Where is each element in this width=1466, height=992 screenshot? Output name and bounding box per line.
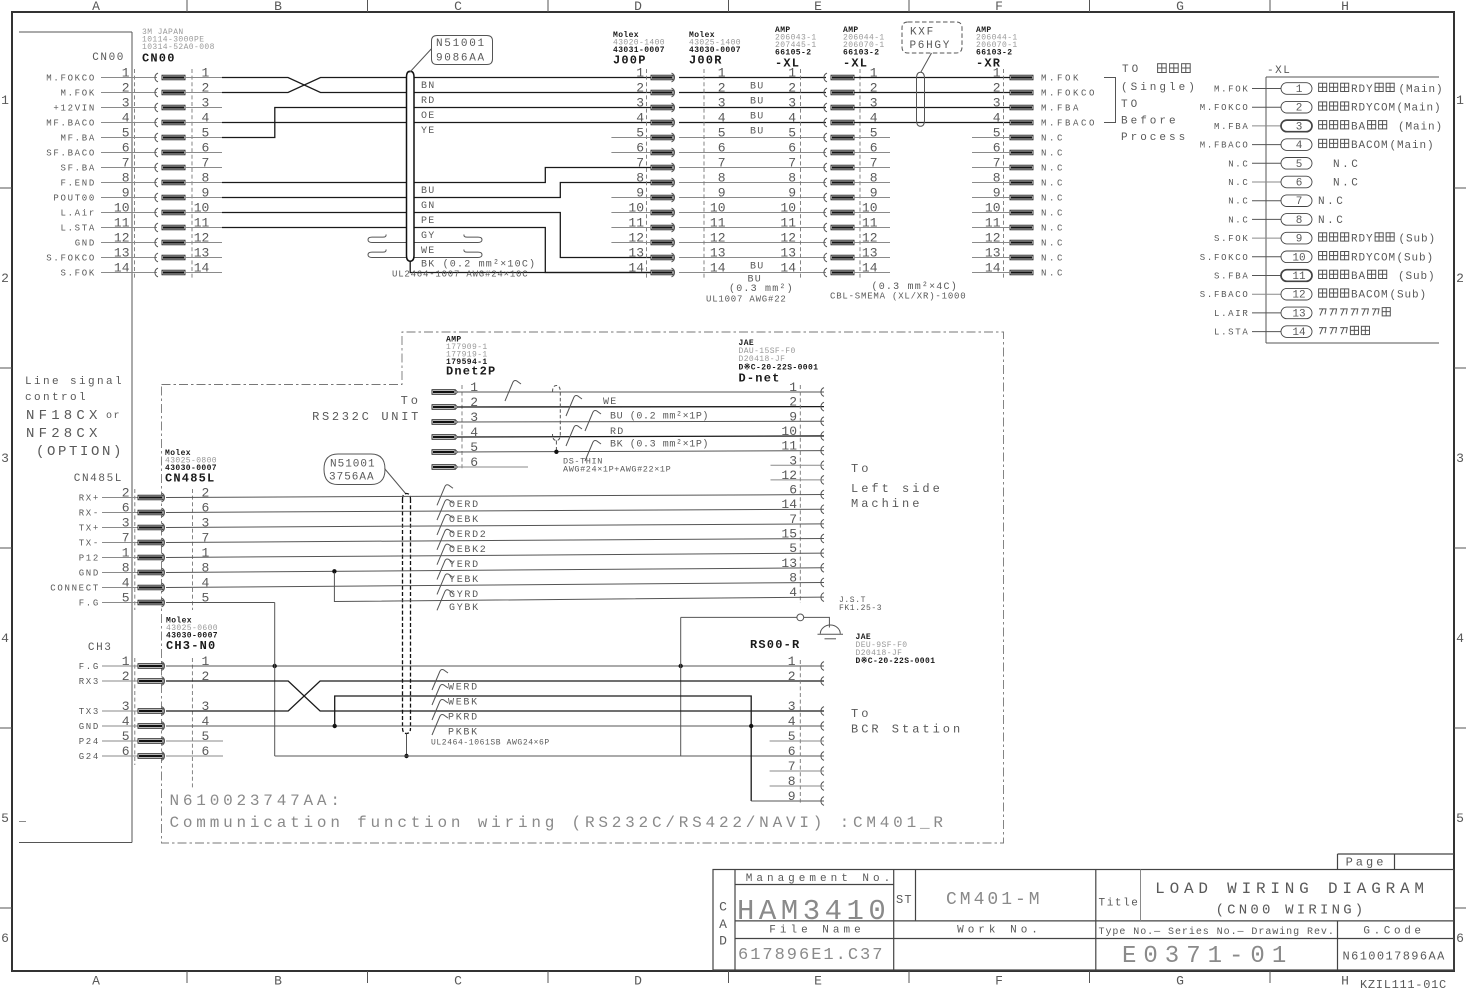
table -XL pin 6 oval: [1281, 176, 1312, 188]
svg-text:Left side: Left side: [851, 482, 943, 496]
svg-text:RD: RD: [610, 427, 624, 438]
svg-text:M.FBACO: M.FBACO: [1200, 141, 1250, 151]
J00P pin 9 contact: [651, 195, 673, 200]
svg-text:S.FOK: S.FOK: [60, 269, 96, 279]
wire OERD CN485L to D-net-6: [166, 495, 824, 498]
D-net pin 11 open contact: [821, 446, 824, 455]
svg-text:5: 5: [201, 591, 209, 606]
svg-text:-XL: -XL: [1267, 65, 1291, 77]
D-net pin3 and pin12 stubs: [771, 464, 825, 466]
svg-text:4: 4: [788, 714, 796, 729]
svg-text:9: 9: [789, 409, 797, 424]
svg-text:(Sub): (Sub): [1398, 271, 1436, 283]
svg-text:4: 4: [1296, 140, 1303, 152]
svg-text:4: 4: [788, 111, 796, 126]
svg-text:(Sub): (Sub): [1399, 234, 1437, 246]
CN00 pin 13 contact: [101, 257, 157, 259]
svg-text:N.C: N.C: [1228, 159, 1249, 169]
svg-text:PE: PE: [421, 216, 435, 227]
svg-text:TO: TO: [1122, 64, 1141, 76]
-XL(66105-2) pin 9 contact: [824, 193, 827, 202]
svg-text:BCR Station: BCR Station: [851, 723, 963, 737]
junction F.G vertical to ground: [679, 664, 683, 668]
svg-text:6: 6: [201, 744, 209, 759]
svg-text:2: 2: [122, 669, 130, 684]
connector CH3 dashed housing lines: [134, 658, 136, 765]
svg-text:G: G: [1176, 974, 1184, 989]
svg-text:13: 13: [985, 246, 1001, 261]
svg-text:CH3: CH3: [88, 642, 113, 654]
svg-text:4: 4: [201, 576, 209, 591]
J00P pin 12 contact: [651, 240, 673, 245]
svg-text:Management No.: Management No.: [746, 873, 894, 885]
svg-text:N.C: N.C: [1041, 134, 1065, 144]
-XL(66105-2) pin 11 contact: [824, 223, 827, 232]
J00P pin 11 contact: [651, 225, 673, 230]
table -XL row 13 function: [1319, 309, 1326, 316]
svg-text:6: 6: [122, 501, 130, 516]
svg-text:BU (0.2 mm²×1P): BU (0.2 mm²×1P): [610, 411, 709, 423]
-XL(66103-2) pin 6 stub: [854, 152, 891, 154]
svg-text:11: 11: [194, 216, 210, 231]
svg-text:PKBK: PKBK: [448, 728, 479, 739]
svg-text:12: 12: [781, 468, 797, 483]
wire RS00-R pin9 from vertical: [751, 800, 824, 802]
svg-text:5: 5: [788, 729, 796, 744]
-XR pin 12 contact: [1010, 240, 1033, 245]
svg-text:5: 5: [470, 440, 478, 455]
svg-text:3: 3: [122, 96, 130, 111]
D-net pin 1 open contact: [821, 388, 824, 397]
svg-text:3: 3: [789, 453, 797, 468]
svg-text:S.FOKCO: S.FOKCO: [46, 254, 96, 264]
connector -XL 66105-2 dashed housing line: [800, 69, 802, 278]
svg-text:BU: BU: [750, 112, 764, 123]
svg-text:N610023747AA:: N610023747AA:: [170, 792, 344, 810]
Dnet2P pin 5 contact: [432, 450, 455, 455]
svg-text:12: 12: [710, 231, 726, 246]
svg-text:NF28CX: NF28CX: [26, 426, 102, 442]
table -XL pin 11 oval: [1281, 270, 1312, 282]
CH3 pin 2 contact: [102, 680, 138, 682]
svg-text:M.FOK: M.FOK: [60, 89, 96, 99]
-XL(66105-2) pin 13 contact: [824, 253, 827, 262]
RS00-R pin 2 open contact: [821, 677, 824, 686]
svg-text:YERD: YERD: [449, 560, 480, 571]
svg-text:B: B: [274, 0, 282, 14]
svg-text:12: 12: [1292, 290, 1305, 302]
title block CAD cell: [734, 870, 736, 971]
svg-text:5: 5: [201, 126, 209, 141]
NF18CX unit boundary box: [19, 31, 132, 33]
wire OEBK CN485L to D-net-14: [166, 509, 824, 512]
junction GND branch up: [333, 724, 337, 728]
svg-text:13: 13: [1292, 308, 1305, 320]
svg-text:M.FOK: M.FOK: [1041, 74, 1081, 84]
svg-text:(CN00 WIRING): (CN00 WIRING): [1216, 903, 1367, 919]
svg-text:Machine: Machine: [851, 497, 922, 511]
svg-text:11: 11: [781, 439, 797, 454]
J00P pin 14 contact: [651, 270, 673, 275]
Dnet2P pin 1 contact: [432, 390, 455, 395]
svg-text:11: 11: [985, 216, 1001, 231]
svg-text:C: C: [719, 900, 727, 915]
-XL(66105-2) pin 12 contact: [824, 238, 827, 247]
svg-text:UL2464-1007 AWG#24×10C: UL2464-1007 AWG#24×10C: [392, 270, 528, 280]
svg-text:Dnet2P: Dnet2P: [446, 365, 496, 379]
wire L.Air CN00-10 step down to J00P-13: [222, 212, 406, 214]
D-net pin 2 open contact: [821, 402, 824, 411]
svg-text:2: 2: [788, 669, 796, 684]
svg-text:14: 14: [780, 261, 796, 276]
svg-text:5: 5: [122, 591, 130, 606]
svg-text:F: F: [995, 974, 1003, 989]
-XL(66103-2) pin 8 stub: [854, 182, 891, 184]
svg-text:6: 6: [788, 744, 796, 759]
svg-text:1: 1: [470, 380, 478, 395]
svg-text:8: 8: [636, 171, 644, 186]
CN485L pin 2 contact: [102, 497, 138, 499]
svg-text:BN: BN: [421, 81, 435, 92]
balloon KXF P6HGY: [902, 22, 962, 53]
svg-text:E: E: [814, 974, 822, 989]
svg-text:4: 4: [201, 714, 209, 729]
svg-text:TX+: TX+: [79, 524, 100, 534]
svg-text:7: 7: [718, 156, 726, 171]
wire WEBK branch: [335, 696, 752, 801]
svg-text:CN485L: CN485L: [165, 472, 215, 486]
svg-text:RX+: RX+: [79, 494, 100, 504]
D-net pin 14 open contact: [821, 505, 824, 514]
svg-text:TO: TO: [1121, 99, 1140, 111]
svg-text:9: 9: [1296, 234, 1303, 246]
svg-text:5: 5: [718, 126, 726, 141]
svg-text:To: To: [851, 462, 871, 476]
svg-text:13: 13: [780, 246, 796, 261]
svg-text:S.FBA: S.FBA: [1214, 272, 1250, 282]
CN00 pin 8 contact: [101, 182, 157, 184]
svg-text:Page: Page: [1346, 856, 1387, 870]
wire labels WERD WEBK PKRD PKBK: [432, 669, 448, 690]
svg-text:F: F: [995, 0, 1003, 14]
svg-text:14: 14: [628, 261, 644, 276]
connector J00R dashed housing line: [703, 69, 705, 278]
CN485L pin 7 contact: [102, 542, 138, 544]
svg-text:10: 10: [781, 424, 797, 439]
CH3 pin 4 contact: [102, 725, 138, 727]
-XR pin 1 contact: [1010, 75, 1033, 80]
svg-text:3: 3: [636, 96, 644, 111]
-XL(66103-2) pin 11 stub: [854, 227, 891, 229]
svg-text:6: 6: [788, 141, 796, 156]
svg-text:9: 9: [788, 789, 796, 804]
svg-text:Before: Before: [1121, 116, 1179, 128]
svg-text:(Sub): (Sub): [1390, 290, 1428, 302]
svg-text:11: 11: [862, 216, 878, 231]
wire F.G CH3-1 to RS00-R-1: [166, 665, 824, 667]
svg-text:Type No.— Series No.— Drawing: Type No.— Series No.— Drawing Rev.: [1099, 926, 1335, 938]
wire OERD2 CN485L to D-net-7: [166, 524, 824, 528]
svg-text:3: 3: [1, 451, 9, 466]
svg-text:To: To: [401, 394, 421, 408]
svg-text:MF.BA: MF.BA: [60, 134, 96, 144]
svg-text:L.STA: L.STA: [60, 224, 96, 234]
svg-text:P24: P24: [79, 737, 100, 747]
wire RX3 CH3-2 crossover down: [166, 681, 824, 711]
svg-text:9: 9: [870, 186, 878, 201]
table -XL pin 3 oval: [1281, 120, 1312, 132]
svg-text:Work No.: Work No.: [957, 925, 1042, 937]
svg-text:11: 11: [628, 216, 644, 231]
svg-text:D: D: [634, 974, 642, 989]
svg-text:Communication function wiring: Communication function wiring (RS232C/RS…: [170, 814, 947, 832]
svg-text:S.FBACO: S.FBACO: [1200, 290, 1250, 300]
-XL(66105-2) pin 4 contact: [824, 118, 827, 127]
J00P pin 3 contact: [651, 105, 673, 110]
wire GND CH3-4 PKBK to RS00-R-4: [166, 725, 824, 727]
svg-text:L.AIR: L.AIR: [1214, 309, 1250, 319]
CN00 pin 4 contact: [101, 122, 157, 124]
table -XL row 1 function: [1319, 83, 1327, 91]
Dnet2P pin 3 contact: [432, 420, 455, 425]
svg-text:BU: BU: [750, 97, 764, 108]
svg-text:9086AA: 9086AA: [436, 53, 486, 65]
connector D-net dashed housing line: [799, 385, 801, 603]
table -XL row 2 function: [1319, 102, 1327, 110]
D-net pin 6 open contact: [821, 490, 824, 499]
svg-text:GN: GN: [421, 201, 435, 212]
svg-text:5: 5: [122, 729, 130, 744]
CH3 pin 6 contact: [102, 755, 138, 757]
svg-text:GYBK: GYBK: [449, 603, 480, 614]
svg-text:8: 8: [870, 171, 878, 186]
svg-text:2: 2: [1456, 271, 1464, 286]
table -XL pin 2 oval: [1281, 101, 1312, 113]
svg-text:7: 7: [993, 156, 1001, 171]
option unit dash-dot boundary box N610023747AA: [162, 332, 1004, 843]
-XL(66105-2) pin 1 contact: [824, 73, 827, 82]
svg-text:CN485L: CN485L: [74, 473, 123, 485]
svg-text:11: 11: [1292, 271, 1306, 283]
svg-text:RDYCOM: RDYCOM: [1351, 103, 1396, 115]
wire YERD CN485L to D-net-5: [166, 553, 824, 557]
svg-text:8: 8: [788, 171, 796, 186]
svg-text:7: 7: [201, 531, 209, 546]
svg-text:N.C: N.C: [1041, 179, 1065, 189]
svg-text:G: G: [1176, 0, 1184, 14]
svg-text:6: 6: [470, 455, 478, 470]
svg-text:(Sub): (Sub): [1397, 252, 1435, 264]
CN485L pin 8 contact: [102, 572, 138, 574]
-XR pin 11 contact: [1010, 225, 1033, 230]
CN485L pin 4 contact: [102, 587, 138, 589]
svg-text:8: 8: [718, 171, 726, 186]
svg-text:11: 11: [710, 216, 726, 231]
svg-text:11: 11: [780, 216, 796, 231]
CN00 pin 1 contact: [101, 77, 157, 79]
svg-text:3: 3: [122, 699, 130, 714]
-XR pin 7 contact: [1010, 165, 1033, 170]
junction drain to BK wire: [554, 450, 558, 454]
svg-text:1: 1: [201, 546, 209, 561]
wire OEBK2 CN485L to D-net-15: [166, 539, 824, 543]
-XR pin 10 contact: [1010, 210, 1033, 215]
wire -XL to -XR row 1: [854, 77, 1011, 79]
svg-text:ST: ST: [896, 893, 913, 907]
svg-text:M.FBA: M.FBA: [1214, 122, 1250, 132]
wire -XL to -XR row 2: [854, 92, 1011, 94]
svg-text:L.Air: L.Air: [60, 209, 96, 219]
svg-text:6: 6: [122, 744, 130, 759]
wire L.STA CN00-11 step down to J00P-14: [222, 227, 406, 229]
table -XL pin 4 oval: [1281, 139, 1312, 151]
-XL(66103-2) pin 14 stub: [854, 272, 891, 274]
svg-text:M.FBA: M.FBA: [1041, 104, 1081, 114]
svg-text:(Single): (Single): [1121, 82, 1198, 94]
RS00-R pin 1 open contact: [821, 662, 824, 671]
-XR pin 8 contact: [1010, 180, 1033, 185]
table -XL pin 5 oval: [1281, 158, 1312, 170]
svg-text:BU: BU: [750, 82, 764, 93]
CN485L pin 3 contact: [102, 527, 138, 529]
svg-text:7: 7: [789, 512, 797, 527]
svg-text:5: 5: [870, 126, 878, 141]
svg-text:9: 9: [993, 186, 1001, 201]
svg-text:OE: OE: [421, 111, 435, 122]
svg-text:N.C: N.C: [1333, 178, 1360, 190]
svg-text:To: To: [851, 707, 871, 721]
title block outer box: [713, 870, 1454, 971]
D-net pin 13 open contact: [821, 563, 824, 572]
svg-text:CH3-N0: CH3-N0: [166, 639, 216, 653]
svg-text:(Main): (Main): [1397, 103, 1442, 115]
-XL(66105-2) pin 8 contact: [824, 178, 827, 187]
svg-text:PKRD: PKRD: [448, 713, 479, 724]
wire Dnet2P-1 to D-net-1: [458, 391, 825, 393]
svg-text:6: 6: [122, 141, 130, 156]
junction F.G branch down: [273, 664, 277, 668]
D-net pin 7 open contact: [821, 519, 824, 528]
svg-text:6: 6: [1456, 931, 1464, 946]
svg-text:7: 7: [122, 531, 130, 546]
RS00-R pin 6 open contact: [821, 752, 824, 761]
svg-text:1: 1: [718, 66, 726, 81]
svg-text:D: D: [719, 934, 727, 949]
svg-text:3: 3: [993, 96, 1001, 111]
wire YEBK CN485L to D-net-13: [166, 568, 824, 573]
svg-text:12: 12: [194, 231, 210, 246]
svg-text:12: 12: [780, 231, 796, 246]
J00P pin 6 contact: [651, 150, 673, 155]
svg-text:13: 13: [114, 246, 130, 261]
table -XL row 3 function: [1319, 121, 1327, 129]
svg-text:M.FOK: M.FOK: [1214, 85, 1250, 95]
svg-text:3: 3: [122, 516, 130, 531]
svg-text:3: 3: [870, 96, 878, 111]
wire F.END CN00-8 step up to J00P-7: [222, 182, 406, 184]
svg-text:6: 6: [636, 141, 644, 156]
svg-text:14: 14: [710, 261, 726, 276]
CN00 pin 6 contact: [101, 152, 157, 154]
wire row1 sheath to J00P-1: [414, 77, 651, 79]
svg-text:14: 14: [985, 261, 1001, 276]
svg-text:WERD: WERD: [448, 683, 479, 694]
balloon leader to cable: [385, 469, 407, 495]
CN00 pin 12 contact: [101, 242, 157, 244]
-XL(66105-2) pin 10 contact: [824, 208, 827, 217]
J00P pin 10 contact: [651, 210, 673, 215]
svg-text:A: A: [719, 917, 727, 932]
svg-text:10: 10: [628, 201, 644, 216]
-XL(66105-2) pin 14 contact: [824, 268, 827, 277]
svg-text:GND: GND: [75, 239, 96, 249]
-XL(66103-2) pin 9 stub: [854, 197, 891, 199]
CN485L pin 5 contact: [102, 602, 138, 604]
wires J00P to -XL through J00R: [679, 77, 826, 79]
svg-text:WE: WE: [421, 246, 435, 257]
-XL(66105-2) pin 2 contact: [824, 88, 827, 97]
balloon leader to sheath: [410, 48, 432, 72]
wire -XL to -XR row 4: [854, 122, 1011, 124]
svg-text:13: 13: [710, 246, 726, 261]
J00P pin 2 contact: [651, 90, 673, 95]
svg-text:GND: GND: [79, 569, 100, 579]
svg-text:N.C: N.C: [1318, 196, 1345, 208]
svg-text:LOAD WIRING DIAGRAM: LOAD WIRING DIAGRAM: [1155, 880, 1429, 898]
Dnet2P pin 4 contact: [432, 435, 455, 440]
svg-text:FK1.25-3: FK1.25-3: [839, 604, 882, 613]
svg-text:5: 5: [201, 729, 209, 744]
cable sheath UL2464-1007 capsule: [407, 71, 415, 261]
svg-text:GY: GY: [421, 231, 435, 242]
svg-text:3: 3: [1296, 121, 1303, 133]
svg-text:4: 4: [718, 111, 726, 126]
D-net pin 4 open contact: [821, 593, 824, 602]
svg-text:GND: GND: [79, 722, 100, 732]
svg-text:Line signal: Line signal: [25, 376, 124, 388]
svg-text:BU: BU: [750, 127, 764, 138]
svg-text:C: C: [454, 0, 462, 14]
svg-text:E0371-01: E0371-01: [1122, 943, 1293, 970]
wire TX3 CH3-3 crossover up WERD: [166, 681, 824, 711]
svg-text:6: 6: [1, 931, 9, 946]
svg-text:YEBK: YEBK: [449, 575, 480, 586]
balloon KXF leader line: [921, 53, 932, 72]
svg-text:BU: BU: [750, 262, 764, 273]
svg-text:TX3: TX3: [79, 707, 100, 717]
svg-text:KZIL111-01C: KZIL111-01C: [1360, 978, 1447, 992]
svg-text:N.C: N.C: [1041, 164, 1065, 174]
CN00 pin 7 contact: [101, 167, 157, 169]
junction WEBK vertical at RS00-R-4: [749, 724, 753, 728]
svg-text:5: 5: [1296, 159, 1303, 171]
svg-text:2: 2: [789, 395, 797, 410]
cable DS-THIN capsule dashed: [553, 386, 561, 441]
svg-text:BACOM: BACOM: [1351, 140, 1389, 152]
svg-text:D: D: [634, 0, 642, 14]
svg-text:4: 4: [122, 576, 130, 591]
svg-text:(OPTION): (OPTION): [36, 444, 124, 460]
svg-text:2: 2: [1296, 103, 1303, 115]
svg-text:N.C: N.C: [1041, 269, 1065, 279]
svg-text:2: 2: [201, 669, 209, 684]
table -XL pin 7 oval: [1281, 195, 1312, 207]
svg-text:1: 1: [122, 546, 130, 561]
CN00 pin 14 contact: [101, 272, 157, 274]
svg-text:SF.BA: SF.BA: [60, 164, 96, 174]
svg-text:5: 5: [1456, 811, 1464, 826]
table -XL pin 8 oval: [1281, 214, 1312, 226]
